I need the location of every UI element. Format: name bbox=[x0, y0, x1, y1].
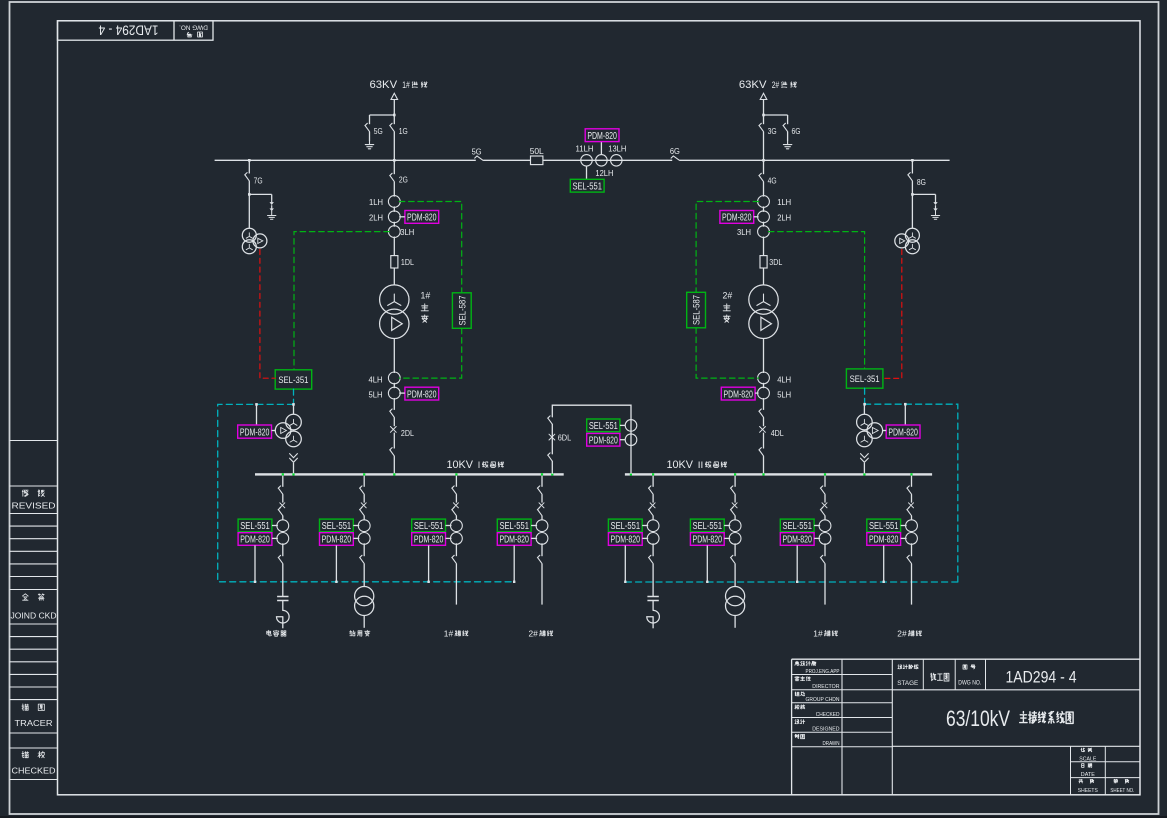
wire bbox=[763, 433, 765, 449]
wires boxes to CTs bbox=[272, 525, 278, 527]
wire to arrester bbox=[912, 193, 935, 195]
svg-text:6G: 6G bbox=[792, 126, 801, 136]
wire bbox=[911, 543, 913, 556]
relay box SEL-551 bbox=[867, 519, 901, 532]
wire bbox=[824, 543, 826, 556]
rotated drawing number 1AD294-4 bbox=[98, 23, 158, 39]
breaker X mark bbox=[280, 503, 285, 508]
svg-text:PDM-820: PDM-820 bbox=[240, 535, 270, 546]
relay box PDM-820 (1T LV CT) bbox=[405, 387, 439, 400]
wire bbox=[734, 616, 736, 628]
feeder CT 1 bbox=[819, 520, 831, 532]
wire bbox=[763, 206, 765, 212]
10KV bus I bbox=[255, 473, 564, 475]
wire bbox=[734, 564, 736, 587]
wire bbox=[824, 564, 826, 605]
disconnector blade bbox=[820, 507, 825, 515]
relay box PDM-820 (2T CT) bbox=[720, 211, 754, 224]
relay box PDM-820 (1T CT) bbox=[405, 211, 439, 224]
wires boxes to CTs bbox=[353, 525, 359, 527]
svg-text:REVISED: REVISED bbox=[12, 501, 56, 511]
voltage transformer PT bbox=[905, 228, 919, 242]
scale date sheets grid bbox=[892, 745, 1140, 747]
double chevron to bus bbox=[290, 454, 298, 463]
wire bbox=[248, 194, 250, 228]
disconnector blade bbox=[390, 409, 395, 417]
wire bbox=[763, 398, 765, 410]
CT 5LH bbox=[758, 387, 770, 399]
disconnector blade bbox=[452, 555, 457, 563]
disconnector blade bbox=[537, 486, 542, 494]
feeder wire from bus bbox=[363, 476, 365, 487]
wire bbox=[652, 564, 654, 597]
disconnector blade bbox=[731, 507, 736, 515]
feeder CT 2 bbox=[277, 533, 289, 545]
wire bbox=[911, 160, 913, 173]
disconnector blade bbox=[360, 507, 365, 515]
title block frame bbox=[792, 658, 1140, 660]
wire bbox=[911, 194, 913, 228]
metering tap wire bbox=[883, 545, 885, 581]
CT 3LH bbox=[388, 226, 400, 238]
disconnector blade bbox=[278, 555, 283, 563]
svg-text:TRACER: TRACER bbox=[15, 718, 53, 728]
wire bbox=[282, 617, 284, 629]
wire bbox=[763, 160, 765, 174]
green tap ticks bus I bbox=[282, 473, 284, 475]
svg-text:SEL-587: SEL-587 bbox=[456, 296, 467, 326]
DATE cell bbox=[1082, 764, 1084, 768]
node dot on cyan bbox=[796, 581, 798, 583]
10KV bus II bbox=[625, 473, 932, 475]
wire bbox=[652, 601, 654, 611]
relay box PDM-820 bbox=[497, 533, 531, 546]
svg-text:4LH: 4LH bbox=[777, 374, 791, 384]
breaker X mark bbox=[822, 503, 827, 508]
wire bbox=[652, 494, 654, 502]
svg-text:PDM-820: PDM-820 bbox=[240, 428, 270, 439]
JOIND CKD cell bbox=[22, 594, 28, 600]
wire bbox=[363, 543, 365, 556]
red dashed PT to SEL-351 right bbox=[883, 250, 902, 379]
svg-text:PDM-820: PDM-820 bbox=[407, 389, 437, 400]
svg-text:4DL: 4DL bbox=[771, 428, 784, 438]
relay box SEL-587 (2T diff) bbox=[687, 292, 706, 328]
metering tap wire bbox=[335, 545, 337, 581]
svg-text:5G: 5G bbox=[472, 146, 482, 156]
disconnector blade bbox=[907, 555, 912, 563]
svg-text:10KV: 10KV bbox=[667, 459, 694, 471]
wire bbox=[455, 543, 457, 556]
svg-text:4LH: 4LH bbox=[369, 374, 383, 384]
svg-text:2LH: 2LH bbox=[369, 212, 383, 222]
svg-text:63KV: 63KV bbox=[739, 79, 767, 91]
disconnector blade bbox=[649, 555, 654, 563]
cyan dashed metering bus right bbox=[625, 388, 958, 582]
wire bbox=[363, 494, 365, 502]
wire bbox=[734, 516, 736, 520]
wire bbox=[393, 160, 395, 174]
svg-text:6G: 6G bbox=[670, 146, 680, 156]
metering tap wire bbox=[428, 545, 430, 581]
station transformer label bbox=[350, 631, 356, 636]
63KV incoming arrow r bbox=[760, 93, 767, 99]
svg-text:SHEET NO.: SHEET NO. bbox=[1110, 788, 1134, 794]
wire bbox=[911, 494, 913, 502]
breaker rect DL bbox=[391, 256, 398, 268]
wires boxes to CTs bbox=[724, 525, 730, 527]
relay box SEL-551 bbox=[497, 519, 531, 532]
wire bbox=[652, 543, 654, 556]
svg-text:PDM-820: PDM-820 bbox=[722, 213, 752, 224]
capacitor plates bbox=[277, 596, 288, 598]
wire box to CT bbox=[399, 216, 405, 218]
svg-text:PDM-820: PDM-820 bbox=[723, 389, 753, 400]
feeder CT 2 bbox=[819, 533, 831, 545]
relay box SEL-551 (bus tie) bbox=[587, 419, 620, 432]
svg-text:1DL: 1DL bbox=[401, 257, 414, 267]
relay box SEL-551 (bus) bbox=[570, 179, 604, 192]
CT 4LH bbox=[388, 372, 400, 384]
DWG NO cell bbox=[963, 665, 967, 669]
disconnector blade bbox=[360, 486, 365, 494]
relay box PDM-820 bbox=[320, 533, 354, 546]
wire bbox=[393, 456, 395, 473]
wire bbox=[393, 100, 395, 125]
node junction bbox=[762, 114, 765, 117]
relay box SEL-551 bbox=[690, 519, 724, 532]
relay box SEL-551 bbox=[412, 519, 446, 532]
svg-text:II: II bbox=[698, 460, 704, 470]
wire bbox=[363, 616, 365, 628]
node dot on cyan bbox=[624, 581, 626, 583]
svg-text:SEL-551: SEL-551 bbox=[782, 521, 812, 532]
relay box PDM-820 (bus tie) bbox=[587, 433, 620, 446]
svg-text:1#: 1# bbox=[813, 628, 823, 638]
wire bbox=[824, 516, 826, 520]
wire bbox=[911, 564, 913, 605]
top-left rotated DWG-NO strip bbox=[58, 21, 214, 40]
svg-text:1#: 1# bbox=[421, 291, 431, 301]
wire bbox=[248, 160, 250, 173]
cyan dashed metering bus left bbox=[218, 389, 515, 582]
wire cyan to PDM box left bbox=[256, 404, 258, 425]
svg-text:8G: 8G bbox=[917, 177, 926, 187]
relay box PDM-820 (bus PT left) bbox=[238, 425, 272, 438]
svg-text:2#: 2# bbox=[772, 80, 780, 90]
svg-text:PDM-820: PDM-820 bbox=[407, 213, 437, 224]
svg-text:CHECKED: CHECKED bbox=[816, 712, 840, 718]
feeder CT 1 bbox=[536, 520, 548, 532]
wire box to CT bbox=[399, 392, 405, 394]
SHEET NO cell bbox=[1114, 779, 1118, 783]
wire bbox=[763, 132, 765, 161]
CT 4LH bbox=[758, 372, 770, 384]
node dot on cyan bbox=[254, 581, 256, 583]
feeder CT 2 bbox=[647, 533, 659, 545]
left margin revision strip bbox=[10, 440, 58, 442]
disconnector blade bbox=[759, 123, 764, 131]
CT 5LH bbox=[388, 387, 400, 399]
transformer HV winding bbox=[749, 285, 778, 314]
disconnector blade bbox=[759, 173, 764, 181]
disconnector blade bbox=[452, 507, 457, 515]
bus tie CT 1 bbox=[625, 420, 637, 432]
CT 1LH bbox=[388, 196, 400, 208]
bus section switch 6G bbox=[671, 156, 679, 160]
svg-text:DWG NO.: DWG NO. bbox=[958, 681, 981, 687]
svg-text:PDM-820: PDM-820 bbox=[611, 535, 641, 546]
svg-text:CHECKED: CHECKED bbox=[12, 766, 56, 776]
svg-text:3LH: 3LH bbox=[400, 227, 414, 237]
wire bbox=[393, 398, 395, 410]
breaker X mark bbox=[390, 427, 396, 433]
transformer HV winding bbox=[380, 285, 409, 314]
earthing switch blade bbox=[365, 123, 370, 131]
title block signature rows bbox=[795, 661, 799, 665]
wire bbox=[455, 516, 457, 520]
relay box SEL-551 bbox=[780, 519, 814, 532]
wire bbox=[282, 516, 284, 520]
feeder CT 1 bbox=[451, 520, 463, 532]
svg-text:5LH: 5LH bbox=[369, 390, 383, 400]
wire bbox=[734, 494, 736, 502]
node dot on cyan bbox=[427, 581, 429, 583]
bus tie disconnector blades bbox=[548, 416, 553, 424]
wire bbox=[652, 617, 654, 629]
metering tap wire bbox=[796, 545, 798, 581]
REVISED cell bbox=[22, 490, 28, 497]
voltage transformer PT bbox=[242, 228, 256, 242]
wire bbox=[541, 543, 543, 556]
metering tap wire bbox=[624, 545, 626, 581]
disconnector blade bbox=[649, 486, 654, 494]
wire 12LH to PDM-820 bbox=[600, 142, 602, 155]
disconnector blade bbox=[390, 173, 395, 181]
svg-text:SEL-587: SEL-587 bbox=[691, 295, 702, 325]
wire bbox=[282, 601, 284, 611]
voltage transformer PT (bus) bbox=[857, 414, 873, 430]
link box to PT bbox=[883, 430, 887, 432]
wire bbox=[282, 564, 284, 597]
svg-text:SEL-551: SEL-551 bbox=[611, 521, 641, 532]
svg-text:DATE: DATE bbox=[1081, 772, 1095, 778]
wire bbox=[393, 418, 395, 427]
wire 11LH to SEL-551 bbox=[586, 166, 588, 180]
wire bbox=[763, 222, 765, 227]
node dot cyan right PT bbox=[863, 403, 866, 406]
metering tap wire bbox=[254, 545, 256, 581]
svg-text:2G: 2G bbox=[399, 175, 408, 185]
svg-text:PDM-820: PDM-820 bbox=[414, 535, 444, 546]
surge arrester with ground bbox=[271, 199, 273, 202]
node dot on cyan bbox=[883, 581, 885, 583]
wire cyan to PT bbox=[863, 404, 865, 414]
wires boxes to CTs bbox=[446, 525, 452, 527]
disconnector blade 7G bbox=[245, 173, 250, 181]
wire bbox=[282, 494, 284, 502]
wires boxes to CTs bbox=[620, 424, 625, 426]
wire bbox=[787, 132, 789, 141]
bus CT 13LH bbox=[611, 155, 623, 167]
feeder wire from bus bbox=[652, 476, 654, 487]
feeder wire from bus bbox=[911, 476, 913, 487]
feeder wire from bus bbox=[824, 476, 826, 487]
feeder CT 2 bbox=[906, 533, 918, 545]
SCALE cell bbox=[1081, 748, 1085, 752]
transformer LV winding bbox=[380, 309, 409, 338]
wire bbox=[282, 543, 284, 556]
metering tap wire bbox=[513, 545, 515, 581]
wire cyan to PT bbox=[293, 404, 295, 414]
SHEETS cell bbox=[1079, 779, 1083, 783]
svg-text:1#: 1# bbox=[444, 628, 454, 638]
svg-text:63/10kV: 63/10kV bbox=[946, 706, 1010, 731]
63KV bus horizontal wire bbox=[215, 159, 476, 161]
wire bbox=[763, 383, 765, 388]
wire bbox=[369, 132, 371, 141]
node dot on cyan bbox=[513, 581, 515, 583]
breaker X mark bbox=[909, 503, 914, 508]
disconnector blade bbox=[907, 507, 912, 515]
breaker X mark bbox=[453, 503, 458, 508]
svg-text:50L: 50L bbox=[530, 146, 544, 156]
svg-text:63KV: 63KV bbox=[370, 79, 398, 91]
bus tie breaker X 6DL bbox=[549, 434, 555, 440]
svg-text:SEL-551: SEL-551 bbox=[240, 521, 270, 532]
svg-text:1AD294 - 4: 1AD294 - 4 bbox=[1006, 669, 1077, 687]
svg-text:SEL-551: SEL-551 bbox=[572, 181, 602, 192]
svg-text:5G: 5G bbox=[374, 126, 383, 136]
svg-text:3LH: 3LH bbox=[737, 227, 751, 237]
node dot on cyan bbox=[335, 581, 337, 583]
green tap ticks bus II bbox=[630, 473, 632, 475]
svg-text:SEL-551: SEL-551 bbox=[869, 521, 899, 532]
relay box PDM-820 bbox=[608, 533, 642, 546]
svg-text:SEL-351: SEL-351 bbox=[850, 374, 880, 385]
CT 3LH bbox=[758, 226, 770, 238]
svg-text:PDM-820: PDM-820 bbox=[587, 131, 617, 142]
disconnector blade bbox=[759, 409, 764, 417]
wire bbox=[652, 516, 654, 520]
green dashed CT link to SEL-587 bbox=[399, 202, 461, 379]
svg-text:7G: 7G bbox=[254, 175, 263, 185]
feeder CT 1 bbox=[729, 520, 741, 532]
svg-text:DIRECTOR: DIRECTOR bbox=[812, 684, 839, 690]
svg-text:6DL: 6DL bbox=[558, 432, 572, 442]
breaker X mark bbox=[732, 503, 737, 508]
relay box PDM-820 (bus PT right) bbox=[886, 425, 920, 438]
disconnector blade bbox=[820, 486, 825, 494]
green dashed 3LH to SEL-351 right bbox=[768, 232, 864, 369]
bottom window edge shade bbox=[0, 816, 1167, 818]
wire bbox=[455, 494, 457, 502]
relay box SEL-551 bbox=[320, 519, 354, 532]
red dashed PT to SEL-351 bbox=[260, 250, 275, 379]
svg-text:PDM-820: PDM-820 bbox=[499, 535, 529, 546]
wire bbox=[293, 463, 295, 474]
wire box to CT bbox=[754, 216, 759, 218]
feeder CT 2 bbox=[451, 533, 463, 545]
svg-text:PROJ.ENG.APP: PROJ.ENG.APP bbox=[806, 669, 840, 675]
construction-drawing cell bbox=[931, 673, 936, 681]
svg-text:SEL-551: SEL-551 bbox=[322, 521, 352, 532]
wire bbox=[363, 564, 365, 587]
wires boxes to CTs bbox=[531, 525, 537, 527]
disconnector blade bbox=[360, 555, 365, 563]
svg-text:1AD294 - 4: 1AD294 - 4 bbox=[98, 23, 158, 39]
svg-text:2#: 2# bbox=[723, 291, 733, 301]
svg-text:2LH: 2LH bbox=[777, 212, 791, 222]
bus tie CT 2 bbox=[625, 434, 637, 446]
63KV incoming arrow l bbox=[391, 93, 398, 99]
wire bbox=[393, 433, 395, 449]
feeder CT 1 bbox=[358, 520, 370, 532]
disconnector blade bbox=[278, 507, 283, 515]
feeder CT 1 bbox=[647, 520, 659, 532]
wire bbox=[763, 100, 765, 125]
wire bbox=[763, 418, 765, 427]
breaker X mark bbox=[539, 503, 544, 508]
feeder CT 2 bbox=[729, 533, 741, 545]
wire bbox=[393, 383, 395, 388]
CHECKED cell bbox=[22, 751, 29, 757]
green dashed CT link to SEL-587 right bbox=[696, 202, 759, 379]
double chevron to bus bbox=[861, 454, 869, 463]
wire bbox=[863, 463, 865, 474]
wire bbox=[763, 456, 765, 473]
svg-text:3DL: 3DL bbox=[769, 257, 782, 267]
wire to earthing switch bbox=[764, 114, 788, 116]
wire to arrester bbox=[249, 193, 271, 195]
wire bbox=[363, 516, 365, 520]
disconnector blade bbox=[820, 555, 825, 563]
node junction bbox=[248, 193, 251, 196]
node dots on 63KV bus bbox=[248, 159, 251, 162]
svg-text:GROUP CHDN: GROUP CHDN bbox=[806, 697, 840, 703]
disconnector blade bbox=[452, 486, 457, 494]
svg-text:13LH: 13LH bbox=[608, 143, 626, 153]
breaker X mark bbox=[650, 503, 655, 508]
node dot on cyan bbox=[706, 581, 708, 583]
relay box PDM-820 bbox=[867, 533, 901, 546]
relay box SEL-551 bbox=[238, 519, 272, 532]
series reactor bbox=[277, 610, 290, 623]
earthing switch blade bbox=[783, 123, 788, 131]
svg-text:SEL-551: SEL-551 bbox=[414, 521, 444, 532]
feeder wire from bus bbox=[455, 476, 457, 487]
svg-text:I: I bbox=[478, 460, 481, 470]
svg-text:PDM-820: PDM-820 bbox=[869, 535, 899, 546]
TRACER cell bbox=[22, 704, 29, 710]
svg-text:2DL: 2DL bbox=[401, 428, 414, 438]
feeder wire from bus bbox=[541, 476, 543, 487]
wire to earthing switch bbox=[370, 114, 395, 116]
feeder CT 2 bbox=[536, 533, 548, 545]
svg-text:STAGE: STAGE bbox=[897, 680, 919, 687]
svg-text:2#: 2# bbox=[529, 628, 539, 638]
feeder CT 1 bbox=[906, 520, 918, 532]
svg-text:SEL-351: SEL-351 bbox=[278, 375, 308, 386]
breaker X mark bbox=[760, 427, 766, 433]
relay box PDM-820 bbox=[780, 533, 814, 546]
node junction bbox=[911, 193, 914, 196]
svg-text:PDM-820: PDM-820 bbox=[782, 535, 812, 546]
svg-text:DESIGNED: DESIGNED bbox=[812, 727, 839, 733]
wire box to CT bbox=[755, 392, 759, 394]
wire bbox=[541, 516, 543, 520]
svg-text:11LH: 11LH bbox=[576, 143, 594, 153]
